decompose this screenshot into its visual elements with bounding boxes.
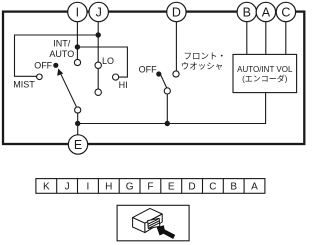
svg-text:K: K (43, 181, 50, 192)
svg-text:C: C (281, 5, 290, 19)
contact HI (open circle) (113, 74, 119, 80)
encoder box AUTO/INT VOL (233, 54, 297, 92)
svg-text:J: J (96, 5, 102, 19)
switch arm (arrow from pivot to OFF) (60, 73, 76, 107)
contact LO (open circle) (95, 62, 101, 68)
wire washer pivot to bottom bus (166, 94, 168, 124)
svg-text:OFF: OFF (34, 60, 52, 70)
svg-text:HI: HI (119, 80, 128, 90)
wire B to encoder (246, 22, 248, 55)
svg-text:I: I (87, 181, 90, 192)
terminal E (68, 135, 87, 154)
svg-text:J: J (65, 181, 70, 192)
svg-text:AUTO/INT VOL: AUTO/INT VOL (237, 65, 293, 74)
svg-text:B: B (230, 181, 237, 192)
wire left box: MIST contact loop (top edge to J junction, left edge, bottom edge) (15, 35, 99, 76)
terminal I (68, 2, 87, 21)
connector icon arrow (157, 225, 176, 239)
terminal D (167, 2, 186, 21)
switch body outer box (3, 12, 304, 144)
svg-text:C: C (209, 181, 216, 192)
terminal A (256, 2, 275, 21)
svg-text:F: F (147, 181, 153, 192)
connector pin row K J I H G F E D C B A (36, 179, 265, 194)
label encoder AUTO/INT VOL (エンコーダ) (237, 65, 293, 84)
label washer フロント・ウオッシャ (181, 51, 226, 71)
label INT/AUTO (49, 39, 74, 60)
contact washer OFF (filled dot) (156, 71, 161, 76)
wire bottom bus (E bus) (78, 93, 266, 124)
switch arm washer (line from OFF dot to pivot) (161, 75, 167, 88)
contact OFF (filled dot, wiper arm off position) (53, 63, 58, 68)
wire pivot to bottom bus (77, 113, 79, 123)
svg-text:E: E (74, 138, 82, 152)
terminal J (89, 2, 108, 21)
svg-text:I: I (76, 5, 79, 19)
svg-text:B: B (243, 5, 251, 19)
svg-text:LO: LO (102, 56, 114, 66)
svg-text:INT/: INT/ (53, 39, 70, 49)
terminal C (276, 2, 295, 21)
wire LO contact to lower contact (97, 69, 99, 90)
node J junction dot (left box top edge meets J line) (96, 32, 101, 37)
svg-text:(エンコーダ): (エンコーダ) (242, 74, 288, 84)
connector icon body (isometric connector) (133, 208, 163, 232)
contact INT/AUTO (open circle) (74, 59, 80, 65)
wire J down to LO ladder (97, 22, 99, 62)
node E bus junction dot at washer (165, 121, 170, 126)
svg-text:ウオッシャ: ウオッシャ (181, 61, 224, 71)
wire A to encoder (265, 22, 267, 55)
svg-text:D: D (188, 181, 195, 192)
svg-text:A: A (262, 5, 271, 19)
contact washer fixed (open circle at D line end) (173, 71, 179, 77)
terminal B (237, 2, 256, 21)
contact MIST (open circle) (37, 74, 43, 80)
switch arm arrowhead (57, 69, 63, 76)
wire E bus down to terminal E (77, 124, 79, 135)
wire D down to washer contact (175, 22, 177, 71)
svg-text:MIST: MIST (13, 80, 35, 90)
svg-text:フロント・: フロント・ (184, 51, 227, 61)
svg-text:H: H (105, 181, 112, 192)
svg-text:A: A (251, 181, 258, 192)
contact LO lower end (open circle) (95, 89, 101, 95)
svg-text:AUTO: AUTO (49, 49, 74, 59)
node INT/AUTO junction dot on I line (75, 44, 80, 49)
svg-text:D: D (172, 5, 181, 19)
contact pivot (open circle, wiper arm pivot) (75, 107, 81, 113)
wire I to INT/AUTO junction (76, 22, 78, 60)
wire C to encoder (285, 22, 287, 55)
svg-text:E: E (168, 181, 175, 192)
svg-text:G: G (126, 181, 134, 192)
wire I junction to HI contact (right, down, left) (77, 47, 127, 77)
node E bus junction dot at pivot (75, 121, 80, 126)
svg-text:OFF: OFF (139, 64, 157, 74)
contact washer pivot (open circle) (164, 88, 170, 94)
connector icon box (117, 205, 189, 241)
